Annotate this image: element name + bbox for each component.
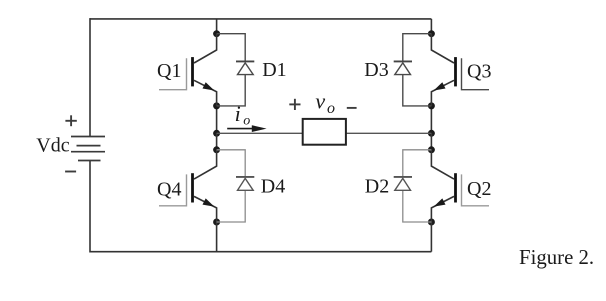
node B (Q1 emitter / D1 anode junction) — [213, 102, 220, 109]
wire left leg bottom (node E to bottom rail) — [216, 222, 218, 252]
svg-text:Q3: Q3 — [467, 60, 491, 82]
label Q3 — [467, 60, 491, 82]
caption Figure 2. — [519, 246, 594, 269]
label battery minus — [65, 171, 76, 173]
node E (Q4 emitter / D4 anode junction) — [213, 219, 220, 226]
wire bottom rail — [90, 251, 431, 253]
svg-text:i: i — [235, 101, 241, 126]
wire left leg top (rail to node A) — [216, 19, 218, 34]
label battery plus — [65, 115, 76, 126]
wire right leg mid (node G to right output node) — [430, 106, 432, 133]
label vo minus — [347, 107, 357, 109]
label Q2 — [467, 178, 491, 200]
node F (Q3 collector / D3 cathode junction) — [428, 30, 435, 37]
battery Vdc — [71, 137, 105, 161]
wire right leg top (rail to node F) — [430, 19, 432, 34]
svg-text:D3: D3 — [364, 59, 388, 81]
label Q1 — [157, 60, 181, 82]
svg-text:D2: D2 — [365, 176, 389, 198]
diode D2 — [394, 150, 432, 222]
label io — [235, 101, 251, 129]
svg-text:D1: D1 — [262, 59, 286, 81]
label vo plus — [289, 99, 300, 110]
wire left rail lower (battery - to bottom rail) — [89, 161, 91, 253]
node H (right output node) — [428, 130, 435, 137]
node C (left output node) — [213, 130, 220, 137]
transistor Q3 (IGBT) — [431, 34, 489, 106]
node J (Q2 emitter / D2 anode junction) — [428, 219, 435, 226]
load box — [303, 119, 346, 145]
wire left leg mid (node B to output node) — [216, 106, 218, 133]
label vo — [315, 89, 335, 118]
wire left rail upper (top rail to battery +) — [89, 18, 91, 136]
label Q4 — [157, 178, 181, 200]
transistor Q4 (IGBT) — [159, 150, 217, 222]
label D4 — [261, 176, 285, 198]
wire left leg (output node to node D) — [216, 133, 218, 150]
svg-text:Vdc: Vdc — [36, 135, 69, 157]
wire top rail — [90, 18, 431, 20]
svg-text:v: v — [315, 89, 325, 114]
svg-text:Q2: Q2 — [467, 178, 491, 200]
wire load left (output node to load box) — [217, 132, 303, 134]
svg-text:Q1: Q1 — [157, 60, 181, 82]
wire right leg (output node to node I) — [430, 133, 432, 150]
svg-text:Q4: Q4 — [157, 178, 181, 200]
svg-text:o: o — [327, 100, 335, 117]
diode D4 — [217, 150, 255, 222]
node I (Q2 collector / D2 cathode junction) — [428, 146, 435, 153]
label Vdc — [36, 135, 69, 157]
svg-text:o: o — [243, 114, 250, 129]
label D1 — [262, 59, 286, 81]
wire load right (load box to right output node) — [346, 132, 432, 134]
svg-text:D4: D4 — [261, 176, 285, 198]
svg-text:Figure 2.: Figure 2. — [519, 246, 594, 269]
diode D3 — [394, 34, 432, 106]
transistor Q2 (IGBT) — [431, 150, 489, 222]
arrow io (current direction) — [227, 125, 266, 132]
node A (Q1 collector / D1 cathode junction) — [213, 30, 220, 37]
transistor Q1 (IGBT) — [159, 34, 217, 106]
diode D1 — [217, 34, 255, 106]
node G (Q3 emitter / D3 anode junction) — [428, 102, 435, 109]
wire right leg bottom (node J to bottom rail) — [430, 222, 432, 252]
label D3 — [364, 59, 388, 81]
node D (Q4 collector / D4 cathode junction) — [213, 146, 220, 153]
label D2 — [365, 176, 389, 198]
